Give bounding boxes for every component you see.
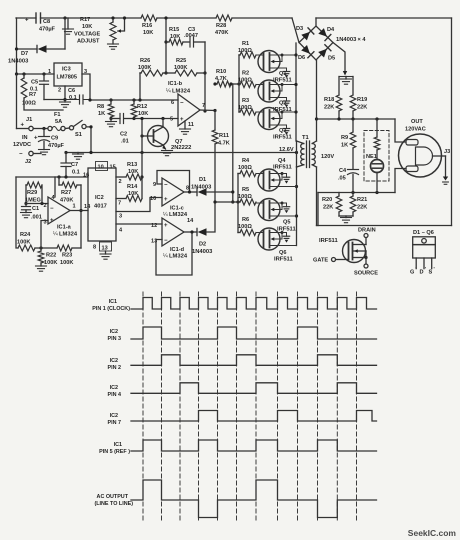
timing grid dashed lines <box>142 292 144 522</box>
svg-text:AC OUTPUT: AC OUTPUT <box>97 494 129 500</box>
svg-text:IC2: IC2 <box>110 413 118 419</box>
wire pin5 row <box>134 118 178 120</box>
switch S1 <box>69 126 73 130</box>
svg-text:R21: R21 <box>357 197 367 203</box>
wire IC3 input <box>16 73 54 75</box>
wire IC2 pin7 / resistor R14 <box>116 198 126 200</box>
svg-text:IRF511: IRF511 <box>273 135 292 141</box>
svg-text:¼: ¼ <box>163 212 168 218</box>
transistor Q6 IRF511 <box>258 228 280 250</box>
svg-text:R19: R19 <box>357 97 367 103</box>
wire pin6 bus <box>109 98 112 101</box>
svg-text:D6: D6 <box>298 55 305 61</box>
svg-text:7: 7 <box>202 103 205 109</box>
wire feedback R27/R23 vertical <box>80 185 82 248</box>
wire gate bus Q4-Q6 <box>237 174 239 233</box>
svg-text:SOURCE: SOURCE <box>354 271 378 277</box>
capacitor C8 <box>35 13 37 23</box>
svg-text:C8: C8 <box>43 19 50 25</box>
svg-text:R7: R7 <box>29 92 36 98</box>
svg-text:C2: C2 <box>120 132 127 138</box>
svg-text:R16: R16 <box>142 23 152 29</box>
svg-text:R24: R24 <box>20 232 31 238</box>
op-amp IC1-b <box>178 94 200 126</box>
svg-text:': ' <box>415 267 416 273</box>
svg-text:Q3: Q3 <box>279 128 286 134</box>
resistor R9 <box>352 119 354 132</box>
svg-text:S: S <box>429 270 433 276</box>
svg-text:PIN 3: PIN 3 <box>108 336 121 342</box>
svg-text:6: 6 <box>171 100 174 106</box>
ground under R8 <box>109 117 112 120</box>
op-amp IC1-a <box>48 197 70 224</box>
wire pin2 row <box>26 203 48 205</box>
capacitor C3 <box>189 37 191 47</box>
diode D5 <box>318 49 327 58</box>
svg-text:5: 5 <box>170 117 173 123</box>
wire socket bottom slot <box>395 169 406 193</box>
svg-text:T1: T1 <box>302 135 310 141</box>
resistor R8 <box>110 100 112 104</box>
svg-text:Q1: Q1 <box>279 71 286 77</box>
svg-text:LM324: LM324 <box>172 89 191 95</box>
wire J1 positive to IC3 input <box>16 74 18 129</box>
svg-text:C7: C7 <box>71 162 78 168</box>
svg-text:−: − <box>180 101 184 107</box>
bridge rectifier D3-D6 <box>299 26 333 60</box>
ground at IC3 pin2 <box>63 98 66 101</box>
wire IC supply bus y177 <box>16 176 88 178</box>
wire bridge bottom to output rail <box>316 60 318 119</box>
svg-text:D2: D2 <box>199 242 206 248</box>
svg-text:J1: J1 <box>26 117 32 123</box>
svg-text:16: 16 <box>83 173 89 179</box>
svg-text:IC1-d: IC1-d <box>170 247 185 253</box>
svg-text:IC1: IC1 <box>109 299 117 305</box>
svg-text:22K: 22K <box>323 205 333 211</box>
capacitor C4 <box>348 169 359 171</box>
resistor R23 <box>57 245 72 251</box>
resistor R25 <box>175 70 197 76</box>
svg-text:2: 2 <box>58 88 61 94</box>
transistor Q3 IRF511 <box>258 108 280 130</box>
svg-text:LM7805: LM7805 <box>57 75 78 81</box>
capacitor C2 <box>111 118 120 120</box>
svg-text:PIN 7: PIN 7 <box>108 420 121 426</box>
svg-text:R1: R1 <box>242 41 249 47</box>
svg-text:10K: 10K <box>128 191 138 197</box>
svg-text:+: + <box>164 223 168 229</box>
svg-text:× 4: × 4 <box>358 37 367 43</box>
svg-text:+: + <box>25 18 29 24</box>
svg-text:IRF511: IRF511 <box>277 227 296 233</box>
svg-text:SeekIC.com: SeekIC.com <box>408 528 457 538</box>
wire D1 to gate bus <box>207 191 233 193</box>
wire R29 right leg <box>41 185 43 204</box>
svg-text:IRF511: IRF511 <box>319 238 338 244</box>
svg-text:IRF511: IRF511 <box>273 165 292 171</box>
svg-text:4017: 4017 <box>94 204 107 210</box>
resistor R15 <box>166 41 169 43</box>
wire output rail 2 <box>318 192 395 194</box>
svg-text:100Ω: 100Ω <box>238 78 252 84</box>
svg-text:100Ω: 100Ω <box>238 105 252 111</box>
svg-text:LM324: LM324 <box>169 212 188 218</box>
IC IC2 4017 <box>88 168 116 241</box>
svg-text:G: G <box>410 270 414 276</box>
svg-text:+: + <box>34 136 38 142</box>
svg-text:R23: R23 <box>62 253 72 259</box>
capacitor C1 <box>25 204 27 207</box>
svg-text:R20: R20 <box>322 197 332 203</box>
diode D1 <box>196 188 198 195</box>
svg-text:470µF: 470µF <box>39 27 56 33</box>
svg-text:C1: C1 <box>32 206 39 212</box>
svg-text:10: 10 <box>150 196 156 202</box>
svg-text:.01: .01 <box>121 139 129 145</box>
svg-text:100K: 100K <box>138 65 151 71</box>
svg-text:11: 11 <box>188 122 194 128</box>
svg-text:2N2222: 2N2222 <box>171 145 191 151</box>
wire IC2 pin3 to IC1-c pin10 <box>116 198 162 212</box>
wire IC1-c output <box>184 191 197 193</box>
svg-text:1N4003: 1N4003 <box>192 249 213 255</box>
svg-text:10K: 10K <box>170 34 180 40</box>
resistor R3 <box>239 111 240 113</box>
wire gate drive bus to R4-R6 <box>215 201 238 203</box>
diode D6 <box>301 45 310 54</box>
svg-text:12VDC: 12VDC <box>13 142 31 148</box>
diode D2 <box>196 228 198 235</box>
wire output rail 1 <box>317 118 396 120</box>
svg-text:R6: R6 <box>242 217 249 223</box>
svg-text:+: + <box>164 197 168 203</box>
svg-text:R4: R4 <box>242 158 250 164</box>
wire +5V bus to IC1-b pin6 <box>90 99 178 101</box>
svg-text:7: 7 <box>118 201 121 207</box>
svg-text:OUT: OUT <box>411 119 423 125</box>
svg-text:D4: D4 <box>327 27 335 33</box>
wire Q7 base / R13 R14 vertical <box>141 119 143 199</box>
wire socket top slot <box>395 119 406 142</box>
ground stub on rail <box>77 153 79 155</box>
svg-text:D5: D5 <box>328 56 335 62</box>
IC3 pin2 lead <box>64 86 66 100</box>
transistor Q4 IRF511 <box>258 169 280 191</box>
capacitor C5 <box>43 74 45 81</box>
svg-text:R8: R8 <box>97 104 104 110</box>
svg-text:100Ω: 100Ω <box>238 48 252 54</box>
wire left vertical <box>16 18 18 74</box>
wire T1 secondary bottom to rail <box>316 167 318 226</box>
svg-text:C6: C6 <box>68 88 75 94</box>
capacitor C9 <box>43 129 45 137</box>
svg-text:VOLTAGE: VOLTAGE <box>74 32 100 38</box>
svg-text:3: 3 <box>119 214 122 220</box>
svg-text:Q6: Q6 <box>279 250 286 256</box>
svg-text:IRF511: IRF511 <box>274 257 293 263</box>
wire drain bus Q1-Q3 <box>295 43 297 141</box>
svg-text:1N4003: 1N4003 <box>191 185 212 191</box>
svg-text:22K: 22K <box>324 105 334 111</box>
svg-text:4.7K: 4.7K <box>215 76 227 82</box>
wire pin3 to R22 node <box>41 221 48 249</box>
resistor R28 <box>216 15 232 21</box>
wire switch to 12.6V rail <box>86 127 91 153</box>
svg-text:+: + <box>180 117 184 123</box>
svg-text:D3: D3 <box>296 26 303 32</box>
svg-text:PIN 5 (REF ): PIN 5 (REF ) <box>99 449 130 455</box>
svg-text:D1 – Q6: D1 – Q6 <box>413 230 434 236</box>
svg-text:12.6V: 12.6V <box>279 147 294 153</box>
svg-text:−: − <box>50 206 54 212</box>
potentiometer R17 <box>112 18 114 22</box>
svg-text:470K: 470K <box>215 30 228 36</box>
svg-text:R11: R11 <box>219 133 229 139</box>
capacitor C6 <box>79 95 81 104</box>
svg-text:4.7K: 4.7K <box>218 141 230 147</box>
fuse F1 <box>48 126 52 130</box>
wire T1 secondary top <box>316 119 318 141</box>
svg-text:470µF: 470µF <box>48 143 65 149</box>
svg-text:Q5: Q5 <box>283 220 290 226</box>
svg-text:C4: C4 <box>339 168 347 174</box>
wire top node to R15/R25 <box>165 18 167 73</box>
resistor R21 <box>352 193 354 197</box>
svg-text:IC1: IC1 <box>114 442 122 448</box>
svg-text:J2: J2 <box>25 159 31 165</box>
svg-text:100Ω: 100Ω <box>238 194 252 200</box>
svg-text:PIN 2: PIN 2 <box>108 365 121 371</box>
svg-text:8: 8 <box>186 186 189 192</box>
wire IC3 output <box>82 74 90 100</box>
ground under R20/R21 <box>339 215 353 217</box>
resistor R27 <box>58 177 60 185</box>
wire R10 node down to D1 bus <box>232 84 234 202</box>
svg-text:(LINE TO LINE): (LINE TO LINE) <box>94 501 133 507</box>
ground under C1 <box>21 212 32 214</box>
svg-text:R17: R17 <box>80 17 90 23</box>
capacitor C7 <box>65 153 67 163</box>
svg-text:R12: R12 <box>137 104 147 110</box>
svg-text:¼: ¼ <box>166 89 171 95</box>
svg-text:1: 1 <box>73 204 76 210</box>
svg-text:R13: R13 <box>127 162 137 168</box>
svg-text:470K: 470K <box>60 198 73 204</box>
svg-text:−: − <box>19 152 23 158</box>
svg-text:15: 15 <box>110 165 116 171</box>
svg-text:120V: 120V <box>321 154 334 160</box>
ground at C8 node <box>63 16 66 19</box>
svg-text:R27: R27 <box>61 190 71 196</box>
svg-text:PIN 1 (CLOCK): PIN 1 (CLOCK) <box>92 306 130 312</box>
wire gate bus Q1-Q3 <box>238 55 240 112</box>
svg-text:R26: R26 <box>140 58 150 64</box>
svg-text:.05: .05 <box>338 176 346 182</box>
wire IC1-b output <box>200 109 215 112</box>
svg-text:R25: R25 <box>176 58 186 64</box>
svg-text:Q4: Q4 <box>278 158 286 164</box>
svg-text:IC1-a: IC1-a <box>57 225 72 231</box>
diode D4 <box>318 28 327 36</box>
svg-text:10K: 10K <box>82 24 92 30</box>
neon lamp NE1 with resistor <box>364 131 389 182</box>
svg-text:12: 12 <box>151 223 157 229</box>
ground under IC2 <box>105 251 107 254</box>
resistor R26 <box>140 72 141 74</box>
svg-text:R15: R15 <box>169 27 179 33</box>
svg-text:14: 14 <box>187 218 194 224</box>
svg-text:1K: 1K <box>341 143 348 149</box>
wire R24 to R22 node <box>35 247 57 249</box>
wire socket ground pin <box>433 155 446 157</box>
svg-text:S1: S1 <box>75 132 82 138</box>
resistor R16 <box>141 15 157 21</box>
resistor R2 <box>240 82 256 88</box>
resistor R22 <box>40 248 42 251</box>
resistor R12 <box>133 100 135 104</box>
resistor R20 <box>338 193 340 197</box>
svg-text:100K: 100K <box>44 260 57 266</box>
transistor Q1 IRF511 <box>258 51 280 73</box>
voltage regulator IC3 LM7805 <box>54 63 82 86</box>
wire R26 to +5 bus <box>139 73 141 100</box>
wire T1 primary bottom / drain bus Q4-Q6 <box>296 167 298 246</box>
svg-text:100Ω: 100Ω <box>22 101 36 107</box>
wire rail top to bridge <box>292 18 299 43</box>
wire IC1-c feedback pin9 <box>157 171 190 193</box>
svg-text:1N4003: 1N4003 <box>336 37 357 43</box>
svg-text:1K: 1K <box>98 111 105 117</box>
ground at R18/R19 top <box>345 77 347 80</box>
svg-text:+: + <box>50 218 54 224</box>
svg-text:D: D <box>420 270 424 276</box>
svg-text:R5: R5 <box>242 187 249 193</box>
svg-text:100Ω: 100Ω <box>238 224 252 230</box>
resistor R4 <box>238 173 240 175</box>
svg-text:LM324: LM324 <box>59 232 78 238</box>
svg-text:−: − <box>164 183 168 189</box>
wire left box <box>16 177 18 248</box>
wire C3 feedback to IC1-b output <box>204 42 206 111</box>
svg-text:IC2: IC2 <box>110 329 118 335</box>
svg-text:¼: ¼ <box>53 232 58 238</box>
op-amp IC1-c <box>162 178 184 206</box>
diode D3 <box>301 32 310 41</box>
svg-text:R3: R3 <box>242 98 249 104</box>
transistor Q5 IRF511 <box>258 199 280 221</box>
resistor R24 <box>18 245 35 251</box>
svg-text:5A: 5A <box>55 119 62 125</box>
svg-text:22K: 22K <box>357 205 367 211</box>
svg-text:': ' <box>434 267 435 273</box>
svg-text:¼: ¼ <box>163 254 168 260</box>
wire R29 left to C1 node <box>25 185 27 204</box>
svg-text:IC2: IC2 <box>110 385 118 391</box>
wire IC1-d feedback pin13 <box>156 232 192 275</box>
wire top rail <box>16 17 36 19</box>
svg-text:J3: J3 <box>444 149 450 155</box>
wire IC1-d output <box>184 231 197 233</box>
svg-text:1N4003: 1N4003 <box>8 59 29 65</box>
svg-text:8: 8 <box>93 245 96 251</box>
transformer T1 <box>296 141 298 167</box>
resistor R18 <box>338 77 340 96</box>
resistor R5 <box>238 201 240 203</box>
resistor R6 <box>238 232 240 234</box>
svg-text:2: 2 <box>44 203 47 209</box>
svg-text:9: 9 <box>153 182 156 188</box>
svg-text:22K: 22K <box>357 105 367 111</box>
resistor R7 <box>21 78 27 98</box>
svg-text:IC2: IC2 <box>95 195 104 201</box>
svg-text:IN: IN <box>22 135 28 141</box>
wire bridge right to R18/R19 node <box>333 43 345 73</box>
svg-text:13: 13 <box>102 246 108 252</box>
svg-text:R2: R2 <box>242 71 249 77</box>
svg-text:R10: R10 <box>216 69 226 75</box>
transistor Q2 IRF511 <box>258 80 280 102</box>
wire IC1-a output to IC2 pin14 <box>70 210 88 212</box>
svg-text:F1: F1 <box>54 112 61 118</box>
svg-text:R14: R14 <box>127 184 138 190</box>
svg-text:GATE: GATE <box>313 258 328 264</box>
svg-text:0.1: 0.1 <box>72 170 80 176</box>
resistor R11 <box>214 111 216 131</box>
svg-text:R9: R9 <box>341 135 348 141</box>
svg-text:R28: R28 <box>216 23 226 29</box>
resistor R29 <box>26 184 27 186</box>
svg-text:100K: 100K <box>60 260 73 266</box>
wire IC2 pin4 to IC1-d pin12 <box>116 223 162 225</box>
wire IC2 pin2 / resistor R13 <box>116 176 126 178</box>
resistor R10 <box>215 83 217 85</box>
ground under R22 <box>36 265 47 267</box>
svg-text:R29: R29 <box>27 190 37 196</box>
svg-text:100Ω: 100Ω <box>238 165 252 171</box>
svg-text:ADJUST: ADJUST <box>77 39 100 45</box>
socket J3 <box>399 134 442 177</box>
wire D2 to gate bus <box>207 202 216 232</box>
svg-text:R18: R18 <box>324 97 334 103</box>
svg-text:IC2: IC2 <box>110 358 118 364</box>
svg-text:120VAC: 120VAC <box>405 127 426 133</box>
svg-text:C5: C5 <box>31 80 38 86</box>
svg-text:IC1-b: IC1-b <box>168 81 183 87</box>
svg-text:100K: 100K <box>17 240 30 246</box>
svg-text:0.1: 0.1 <box>69 95 77 101</box>
svg-text:10K: 10K <box>128 169 138 175</box>
svg-text:C9: C9 <box>51 136 58 142</box>
svg-text:LM324: LM324 <box>169 254 188 260</box>
svg-text:PIN 4: PIN 4 <box>108 392 121 398</box>
svg-text:10K: 10K <box>138 111 148 117</box>
svg-text:': ' <box>425 267 426 273</box>
wire bottom rail <box>317 225 452 227</box>
svg-text:1MEG: 1MEG <box>25 198 41 204</box>
svg-text:IC1-c: IC1-c <box>170 206 184 212</box>
transistor Q7 2N2222 <box>148 126 169 147</box>
svg-text:+: + <box>21 123 25 129</box>
svg-text:100K: 100K <box>174 65 187 71</box>
svg-text:.0047: .0047 <box>184 33 198 39</box>
svg-text:10: 10 <box>98 165 104 171</box>
svg-text:D7: D7 <box>21 51 28 57</box>
resistor R19 <box>352 77 354 96</box>
svg-text:R22: R22 <box>46 253 56 259</box>
wire right edge <box>451 18 453 226</box>
svg-text:DRAIN: DRAIN <box>358 228 376 234</box>
